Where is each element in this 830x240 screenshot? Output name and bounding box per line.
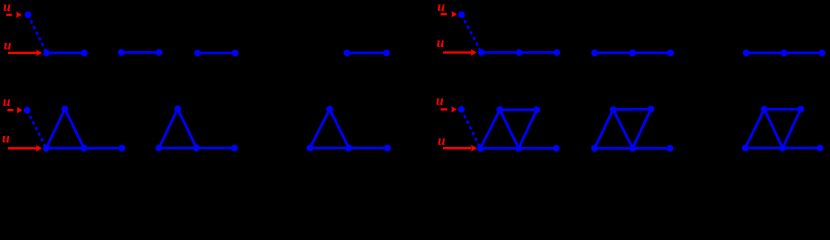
svg-text:u: u xyxy=(438,134,446,149)
svg-text:u: u xyxy=(437,0,445,15)
svg-text:u: u xyxy=(437,36,445,51)
svg-text:u: u xyxy=(3,0,11,15)
svg-text:u: u xyxy=(2,131,10,146)
svg-text:u: u xyxy=(436,94,444,109)
svg-text:u: u xyxy=(3,95,11,110)
svg-text:u: u xyxy=(4,39,12,54)
